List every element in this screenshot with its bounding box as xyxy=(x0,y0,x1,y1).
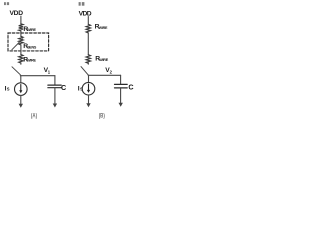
wire node V1 horizontal (A) xyxy=(20,75,55,77)
svg-text:WIRE: WIRE xyxy=(99,58,108,62)
wire stub above switch (B) xyxy=(87,63,89,64)
wire below capacitor (B) xyxy=(120,88,122,103)
svg-text:WIRE: WIRE xyxy=(27,28,36,32)
tiny corner text left xyxy=(4,2,6,5)
wire V1 to capacitor (A) xyxy=(54,76,56,85)
wire R1 to R2 (B) xyxy=(87,33,89,55)
current source IS circle (A) xyxy=(14,83,27,96)
svg-text:SENS: SENS xyxy=(27,45,37,49)
resistor R_SENS (variable) zigzag xyxy=(19,36,23,45)
svg-text:C: C xyxy=(128,83,133,92)
ground arrow below IS (A) xyxy=(19,104,23,108)
svg-text:(A): (A) xyxy=(31,114,37,120)
wire V2 down to current source (B) xyxy=(88,75,90,82)
wire below current source (B) xyxy=(88,95,90,104)
wire below current source (A) xyxy=(20,95,22,104)
svg-text:C: C xyxy=(61,83,66,92)
wire VDD to R1 (B) xyxy=(87,17,89,25)
svg-text:WIRE: WIRE xyxy=(99,26,108,30)
svg-text:(B): (B) xyxy=(99,113,105,119)
current source inner arrow (A) xyxy=(20,85,22,91)
wire V1 down to current source (A) xyxy=(20,76,22,83)
wire Rsens to R3 (A) xyxy=(20,45,22,55)
current source inner arrow (B) xyxy=(88,84,90,90)
ground arrow below C (A) xyxy=(53,104,57,108)
svg-text:WIRE: WIRE xyxy=(27,59,36,63)
wire R1 to Rsens (A) xyxy=(20,31,22,37)
resistor R_WIRE top (B) xyxy=(86,24,90,33)
resistor R_WIRE bottom (A) xyxy=(19,55,23,64)
current source IS circle (B) xyxy=(82,82,95,95)
svg-text:S: S xyxy=(7,87,10,92)
wire node V2 horizontal (B) xyxy=(88,74,120,76)
svg-text:S: S xyxy=(80,87,83,92)
wire V2 to capacitor (B) xyxy=(120,75,122,84)
tiny corner text right xyxy=(79,2,81,6)
arrow across R_SENS xyxy=(12,40,22,50)
resistor R_WIRE top (A) xyxy=(19,24,23,31)
wire below capacitor (A) xyxy=(54,88,56,104)
resistor R_WIRE bottom (B) xyxy=(86,55,90,64)
svg-text:VDD: VDD xyxy=(79,11,92,18)
capacitor C plates (B) xyxy=(115,83,128,85)
wire VDD to R1 (A) xyxy=(20,16,22,24)
ground arrow below IS (B) xyxy=(86,103,90,107)
capacitor C plates (A) xyxy=(48,84,61,86)
switch lever (B) xyxy=(81,67,88,75)
background xyxy=(0,0,141,120)
wire stub above switch (A) xyxy=(20,63,22,64)
ground arrow below C (B) xyxy=(119,103,123,107)
dashed box around R_SENS xyxy=(8,33,49,51)
switch lever (A) xyxy=(12,67,20,75)
